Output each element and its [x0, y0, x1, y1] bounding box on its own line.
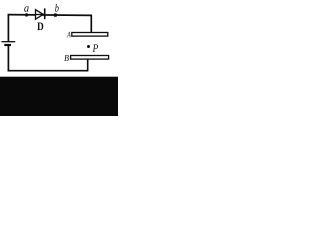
wire: bottom horizontal	[8, 70, 89, 72]
background	[0, 0, 118, 116]
battery: short thick plate	[4, 44, 11, 46]
black bar at bottom	[0, 77, 118, 116]
point P (dot)	[87, 45, 90, 48]
wire: left vertical lower (battery to bottom wire)	[7, 45, 9, 71]
node b (dot)	[54, 13, 58, 17]
label D	[37, 22, 43, 30]
diode D: triangle	[36, 10, 44, 20]
battery: long plate	[1, 41, 15, 43]
wire: plate B stem vertical	[87, 59, 89, 71]
label b	[55, 4, 59, 12]
node a (dot)	[25, 13, 28, 16]
wire through diode	[36, 14, 45, 16]
wire: right vertical down to plate A stem	[90, 15, 92, 33]
wire: left vertical upper (to battery)	[7, 14, 9, 42]
label B	[64, 55, 69, 61]
capacitor plate B	[71, 56, 109, 60]
label P	[93, 44, 98, 52]
label a	[24, 6, 28, 11]
wire: top horizontal from battery to right corner	[8, 14, 92, 17]
diode D: cathode bar	[44, 8, 46, 19]
label A	[67, 32, 71, 37]
capacitor plate A	[72, 33, 108, 37]
